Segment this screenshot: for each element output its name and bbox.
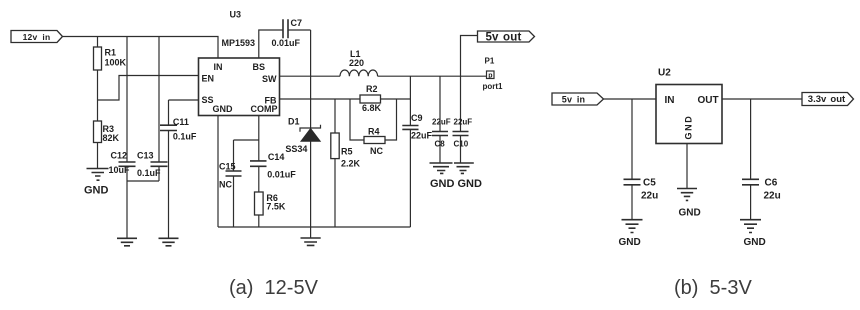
ground below C8 <box>430 163 455 190</box>
svg-text:GND: GND <box>684 115 694 140</box>
svg-text:GND: GND <box>744 237 766 248</box>
wire 12v main rail to IN <box>63 37 219 59</box>
capacitor C6 <box>742 99 781 220</box>
svg-text:U2: U2 <box>658 68 671 79</box>
svg-text:GND: GND <box>84 185 109 197</box>
wire SS pin to C11 <box>169 99 199 101</box>
svg-text:OUT: OUT <box>698 95 719 106</box>
capacitor C14 <box>250 152 296 192</box>
capacitor C11 <box>160 100 197 238</box>
capacitor C12 <box>109 37 136 239</box>
wire ground rail <box>218 226 410 228</box>
ground GND below R3 <box>84 169 109 197</box>
ground below C5 <box>619 220 643 248</box>
svg-text:EN: EN <box>202 74 215 84</box>
svg-text:C13: C13 <box>137 151 154 161</box>
svg-text:0.1uF: 0.1uF <box>173 132 197 142</box>
svg-text:0.1uF: 0.1uF <box>137 168 161 178</box>
wire OUT to 3.3v out flag <box>722 98 802 100</box>
wire SW riser down to diode <box>310 30 312 76</box>
wire 5v in to U2 IN <box>604 98 657 100</box>
capacitor C9 <box>402 76 432 227</box>
wire GND pin to rail <box>217 116 219 228</box>
svg-text:C11: C11 <box>173 117 189 127</box>
svg-text:MP1593: MP1593 <box>222 38 256 48</box>
svg-text:NC: NC <box>219 180 232 190</box>
wire FB to R2 <box>280 98 361 100</box>
svg-text:C10: C10 <box>454 139 469 148</box>
svg-text:P1: P1 <box>485 57 495 66</box>
svg-text:22uF: 22uF <box>432 117 451 126</box>
svg-text:GND: GND <box>619 237 641 248</box>
wire BS riser to C7 <box>259 30 283 58</box>
op-amp U3 MP1593 body <box>199 10 280 116</box>
resistor R6 <box>255 192 286 227</box>
svg-text:D1: D1 <box>288 117 300 127</box>
svg-text:5v in: 5v in <box>562 94 586 104</box>
wire COMP to C15 stub <box>234 139 259 141</box>
svg-text:C6: C6 <box>765 177 778 188</box>
wire C13 bottom to C12 line <box>127 180 159 182</box>
wire SW pin to L1 <box>280 75 341 77</box>
port P1 port1 <box>483 57 504 91</box>
svg-text:port1: port1 <box>483 82 504 91</box>
svg-text:NC: NC <box>370 146 383 156</box>
svg-text:82K: 82K <box>103 133 120 143</box>
svg-text:5v out: 5v out <box>485 32 521 44</box>
svg-text:C15: C15 <box>219 162 236 172</box>
svg-text:C9: C9 <box>411 113 423 123</box>
capacitor C15 NC <box>219 140 242 227</box>
svg-text:p: p <box>488 72 492 79</box>
capacitor C7 <box>272 18 303 48</box>
wire L1 to output node and port <box>378 75 487 77</box>
resistor R1 <box>94 37 127 122</box>
wire riser to 5v out flag <box>461 36 478 77</box>
node 5v in flag <box>552 93 604 105</box>
diode D1 SS34 schottky <box>285 76 320 227</box>
svg-text:22u: 22u <box>764 191 781 202</box>
ground below C6 <box>740 220 766 248</box>
svg-text:C7: C7 <box>291 18 303 28</box>
capacitor C10 <box>453 76 473 162</box>
svg-text:22uF: 22uF <box>411 131 433 141</box>
ground below C12 <box>117 238 137 246</box>
svg-text:R4: R4 <box>368 126 380 136</box>
ground below U2 <box>677 189 701 219</box>
node 5v out flag <box>478 31 535 44</box>
svg-text:3.3v out: 3.3v out <box>808 94 846 105</box>
ground below C11 <box>159 238 179 246</box>
svg-text:(a) 12-5V: (a) 12-5V <box>229 277 319 299</box>
capacitor C13 <box>137 37 168 182</box>
node 3.3v out flag <box>802 93 854 106</box>
regulator U2 body <box>656 68 722 144</box>
svg-text:2.2K: 2.2K <box>341 158 361 168</box>
svg-text:0.01uF: 0.01uF <box>272 38 301 48</box>
svg-text:220: 220 <box>349 58 364 68</box>
svg-text:IN: IN <box>214 62 223 72</box>
svg-text:U3: U3 <box>230 10 242 20</box>
svg-text:R2: R2 <box>366 84 378 94</box>
svg-text:100K: 100K <box>105 58 127 68</box>
ground on rail <box>301 227 321 245</box>
svg-text:R5: R5 <box>341 147 353 157</box>
wire COMP pin down <box>258 116 260 161</box>
svg-text:BS: BS <box>253 62 266 72</box>
inductor L1 220 <box>340 49 378 76</box>
svg-text:C12: C12 <box>111 151 128 161</box>
svg-text:6.8K: 6.8K <box>362 103 382 113</box>
svg-text:GND: GND <box>679 207 701 218</box>
node 12v in flag <box>11 31 63 43</box>
capacitor C5 <box>624 99 659 220</box>
svg-text:12v in: 12v in <box>23 32 51 42</box>
wire EN step from R1/R3 junction <box>98 76 199 101</box>
resistor R5 <box>331 99 361 227</box>
wire U2 GND pin down <box>686 144 688 189</box>
ground below C10 <box>454 163 482 190</box>
svg-text:IN: IN <box>665 95 675 106</box>
resistor R3 <box>94 121 120 169</box>
svg-text:22u: 22u <box>641 191 658 202</box>
svg-text:COMP: COMP <box>251 104 278 114</box>
svg-text:0.01uF: 0.01uF <box>267 169 296 179</box>
svg-text:GND: GND <box>430 178 455 190</box>
svg-text:C8: C8 <box>435 139 446 148</box>
svg-text:R1: R1 <box>105 48 117 58</box>
resistor R2 <box>360 84 410 113</box>
svg-text:GND: GND <box>458 178 483 190</box>
svg-text:C14: C14 <box>268 152 285 162</box>
wire C7 to SW riser <box>288 29 311 31</box>
svg-text:22uF: 22uF <box>454 117 473 126</box>
svg-text:(b) 5-3V: (b) 5-3V <box>674 277 752 299</box>
svg-text:10uF: 10uF <box>109 165 131 175</box>
svg-text:SS34: SS34 <box>285 144 307 154</box>
svg-text:C5: C5 <box>643 177 656 188</box>
resistor R4 NC loop <box>350 99 397 156</box>
capacitor C8 <box>432 76 451 162</box>
svg-text:GND: GND <box>213 104 234 114</box>
svg-text:SW: SW <box>262 74 277 84</box>
svg-text:7.5K: 7.5K <box>266 202 286 212</box>
